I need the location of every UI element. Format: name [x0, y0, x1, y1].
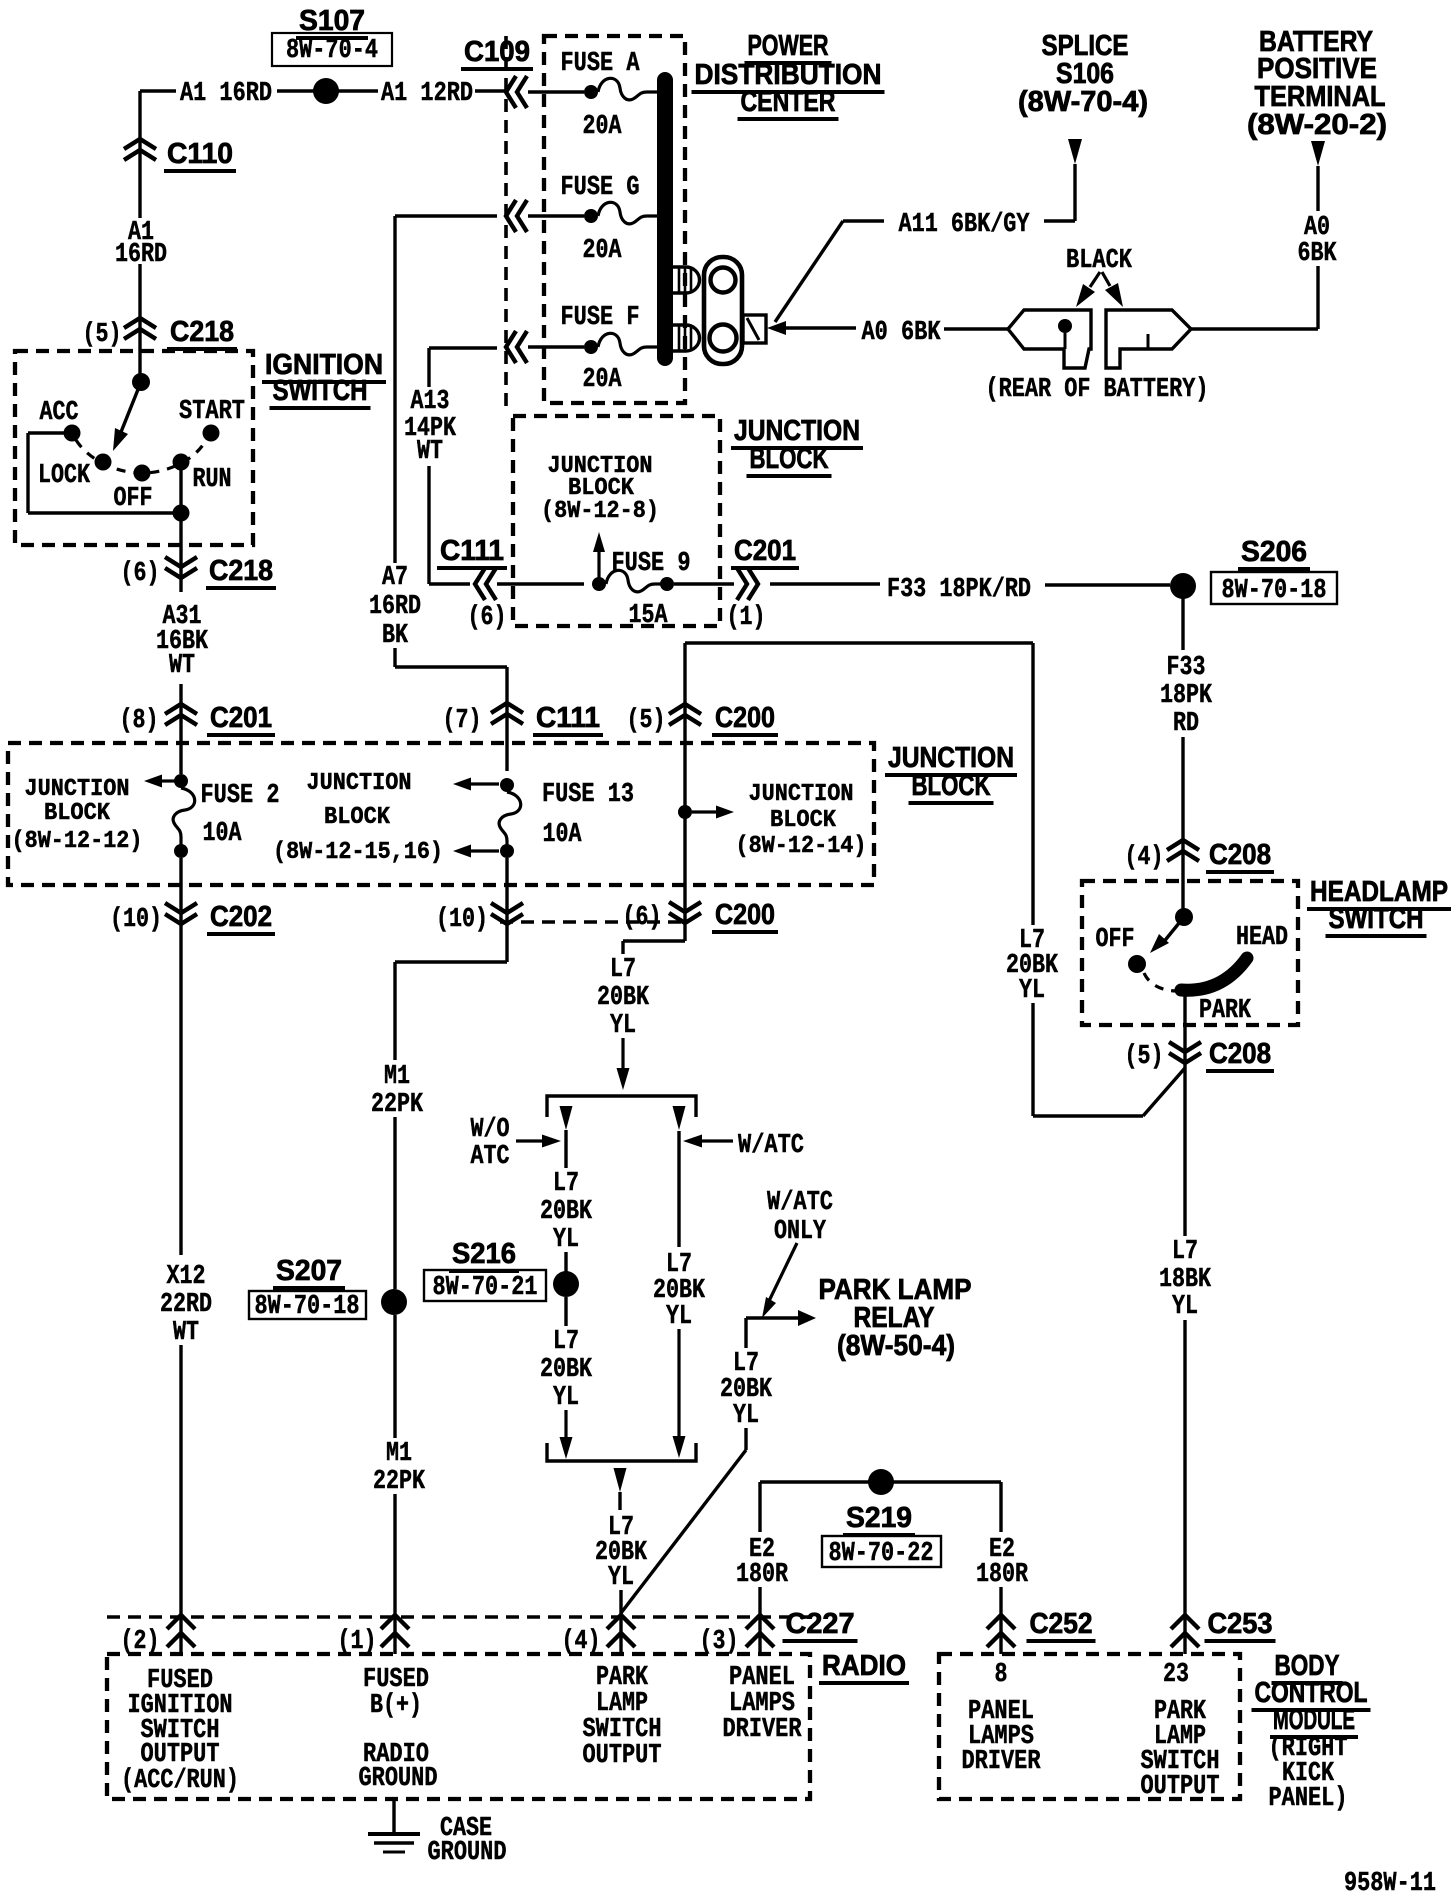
svg-text:B(+): B(+)	[370, 1691, 422, 1721]
svg-text:(6): (6)	[468, 603, 507, 633]
svg-text:YL: YL	[1019, 976, 1045, 1006]
svg-text:18PK: 18PK	[1160, 681, 1213, 711]
svg-text:L7: L7	[553, 1327, 579, 1357]
svg-text:SWITCH: SWITCH	[1329, 903, 1424, 935]
svg-text:W/ATC: W/ATC	[767, 1188, 833, 1218]
svg-text:OUTPUT: OUTPUT	[1141, 1772, 1220, 1802]
svg-text:M1: M1	[384, 1062, 410, 1092]
svg-text:FUSE 9: FUSE 9	[612, 549, 691, 579]
svg-text:C227: C227	[786, 1608, 855, 1640]
svg-text:20A: 20A	[583, 236, 623, 266]
svg-text:8: 8	[995, 1660, 1008, 1690]
svg-text:BLOCK: BLOCK	[44, 800, 110, 827]
svg-text:(10): (10)	[110, 905, 162, 935]
svg-text:20BK: 20BK	[597, 983, 650, 1013]
svg-text:GROUND: GROUND	[428, 1838, 507, 1868]
svg-text:C111: C111	[440, 535, 504, 567]
svg-text:S207: S207	[276, 1255, 342, 1287]
svg-text:23: 23	[1163, 1660, 1189, 1690]
svg-text:YL: YL	[608, 1563, 634, 1593]
svg-text:BLACK: BLACK	[1066, 246, 1133, 276]
svg-text:(10): (10)	[436, 905, 488, 935]
svg-text:A1 16RD: A1 16RD	[180, 79, 272, 109]
svg-text:C201: C201	[734, 535, 796, 567]
svg-text:C111: C111	[536, 702, 600, 734]
svg-text:ACC: ACC	[40, 398, 79, 428]
svg-text:DRIVER: DRIVER	[723, 1715, 803, 1745]
svg-text:(6): (6)	[121, 559, 160, 589]
svg-text:RD: RD	[1173, 709, 1199, 739]
svg-text:16RD: 16RD	[369, 592, 421, 622]
svg-text:(1): (1)	[727, 603, 766, 633]
svg-text:180R: 180R	[736, 1560, 789, 1590]
svg-text:C218: C218	[170, 316, 234, 348]
svg-text:M1: M1	[386, 1439, 412, 1469]
svg-text:C208: C208	[1209, 1038, 1271, 1070]
svg-text:ONLY: ONLY	[774, 1217, 827, 1247]
svg-text:(8W-12-8): (8W-12-8)	[541, 498, 659, 525]
svg-text:RADIO: RADIO	[822, 1650, 906, 1682]
svg-text:JUNCTION: JUNCTION	[749, 781, 854, 808]
svg-text:10A: 10A	[543, 820, 583, 850]
svg-text:20A: 20A	[583, 112, 623, 142]
svg-text:A1 12RD: A1 12RD	[381, 79, 473, 109]
svg-text:L7: L7	[553, 1169, 579, 1199]
svg-text:WT: WT	[417, 437, 443, 467]
svg-text:HEAD: HEAD	[1236, 923, 1288, 953]
svg-text:C208: C208	[1209, 839, 1271, 871]
svg-text:SWITCH: SWITCH	[273, 375, 368, 407]
svg-text:8W-70-4: 8W-70-4	[286, 36, 378, 66]
svg-text:F33: F33	[1167, 653, 1206, 683]
svg-text:8W-70-21: 8W-70-21	[433, 1273, 538, 1303]
svg-text:X12: X12	[167, 1262, 206, 1292]
svg-text:10A: 10A	[203, 819, 243, 849]
svg-text:C109: C109	[464, 36, 530, 68]
svg-text:W/O: W/O	[471, 1115, 510, 1145]
svg-text:6BK: 6BK	[1298, 239, 1338, 269]
svg-text:18BK: 18BK	[1159, 1265, 1212, 1295]
svg-text:(8W-70-4): (8W-70-4)	[1018, 86, 1148, 118]
svg-text:YL: YL	[666, 1302, 692, 1332]
svg-text:C200: C200	[715, 702, 775, 734]
svg-text:BLOCK: BLOCK	[912, 770, 991, 802]
svg-text:(6): (6)	[623, 903, 662, 933]
svg-text:(1): (1)	[338, 1627, 377, 1657]
svg-text:16RD: 16RD	[115, 240, 167, 270]
svg-text:C202: C202	[210, 901, 272, 933]
svg-text:(2): (2)	[121, 1627, 160, 1657]
svg-text:A0 6BK: A0 6BK	[862, 318, 942, 348]
svg-text:(ACC/RUN): (ACC/RUN)	[121, 1766, 239, 1796]
svg-text:GROUND: GROUND	[359, 1764, 438, 1794]
svg-text:DRIVER: DRIVER	[962, 1747, 1042, 1777]
svg-text:OFF: OFF	[114, 484, 153, 514]
svg-text:YL: YL	[733, 1401, 759, 1431]
svg-text:A13: A13	[411, 387, 450, 417]
svg-text:C201: C201	[210, 702, 272, 734]
svg-text:OUTPUT: OUTPUT	[583, 1741, 662, 1771]
svg-text:CENTER: CENTER	[741, 86, 836, 118]
svg-text:YL: YL	[553, 1383, 579, 1413]
svg-text:(8W-12-15,16): (8W-12-15,16)	[273, 839, 443, 866]
svg-text:(5): (5)	[1125, 1042, 1164, 1072]
svg-text:OFF: OFF	[1096, 925, 1135, 955]
svg-text:(8): (8)	[120, 706, 159, 736]
svg-text:(4): (4)	[1125, 843, 1164, 873]
svg-text:22PK: 22PK	[373, 1467, 426, 1497]
svg-text:FUSE G: FUSE G	[561, 173, 640, 203]
svg-text:22PK: 22PK	[371, 1090, 424, 1120]
svg-text:(7): (7)	[443, 706, 482, 736]
svg-text:(4): (4)	[562, 1627, 601, 1657]
svg-text:S216: S216	[452, 1238, 516, 1270]
svg-text:RUN: RUN	[193, 465, 232, 495]
svg-text:C200: C200	[715, 899, 775, 931]
svg-text:20BK: 20BK	[540, 1355, 593, 1385]
svg-text:S206: S206	[1241, 536, 1307, 568]
svg-text:PANEL): PANEL)	[1269, 1784, 1348, 1814]
svg-text:8W-70-18: 8W-70-18	[255, 1292, 360, 1322]
svg-text:W/ATC: W/ATC	[738, 1131, 804, 1161]
svg-text:WT: WT	[173, 1318, 199, 1348]
svg-text:C253: C253	[1208, 1608, 1273, 1640]
svg-text:C218: C218	[209, 555, 273, 587]
svg-text:MODULE: MODULE	[1273, 1704, 1355, 1736]
svg-text:BLOCK: BLOCK	[324, 804, 390, 831]
svg-text:A7: A7	[382, 563, 408, 593]
svg-text:L7: L7	[1172, 1237, 1198, 1267]
svg-text:POWER: POWER	[748, 30, 829, 62]
svg-text:YL: YL	[1172, 1292, 1198, 1322]
svg-text:(5): (5)	[83, 320, 122, 350]
svg-text:F33 18PK/RD: F33 18PK/RD	[887, 575, 1031, 605]
svg-text:WT: WT	[169, 651, 195, 681]
svg-text:22RD: 22RD	[160, 1290, 212, 1320]
svg-text:S219: S219	[846, 1502, 912, 1534]
svg-text:BLOCK: BLOCK	[750, 443, 829, 475]
svg-text:JUNCTION: JUNCTION	[25, 776, 130, 803]
svg-text:8W-70-18: 8W-70-18	[1222, 576, 1327, 606]
svg-text:YL: YL	[553, 1225, 579, 1255]
svg-text:START: START	[179, 397, 245, 427]
svg-text:(REAR OF BATTERY): (REAR OF BATTERY)	[986, 375, 1209, 405]
svg-text:8W-70-22: 8W-70-22	[829, 1539, 934, 1569]
svg-text:PARK: PARK	[1199, 996, 1252, 1026]
svg-text:YL: YL	[610, 1011, 636, 1041]
svg-text:15A: 15A	[629, 601, 669, 631]
svg-text:180R: 180R	[976, 1560, 1029, 1590]
svg-text:BK: BK	[382, 621, 409, 651]
svg-text:L7: L7	[610, 955, 636, 985]
svg-text:(3): (3)	[700, 1627, 739, 1657]
svg-text:958W-11: 958W-11	[1344, 1869, 1436, 1896]
svg-text:20BK: 20BK	[540, 1197, 593, 1227]
svg-text:FUSE F: FUSE F	[561, 303, 640, 333]
svg-text:BLOCK: BLOCK	[770, 807, 836, 834]
svg-text:20A: 20A	[583, 365, 623, 395]
svg-text:(8W-50-4): (8W-50-4)	[837, 1330, 955, 1362]
svg-text:C252: C252	[1030, 1608, 1093, 1640]
svg-text:(8W-20-2): (8W-20-2)	[1247, 109, 1387, 141]
svg-text:(5): (5)	[627, 706, 666, 736]
svg-text:FUSE 13: FUSE 13	[542, 780, 634, 810]
svg-text:(8W-12-14): (8W-12-14)	[736, 833, 867, 860]
svg-text:A11 6BK/GY: A11 6BK/GY	[899, 210, 1031, 240]
svg-text:(8W-12-12): (8W-12-12)	[12, 828, 143, 855]
svg-text:FUSE 2: FUSE 2	[201, 781, 280, 811]
svg-text:JUNCTION: JUNCTION	[307, 770, 412, 797]
svg-text:C110: C110	[167, 138, 233, 170]
svg-text:FUSE A: FUSE A	[561, 49, 641, 79]
svg-text:LOCK: LOCK	[38, 461, 91, 491]
svg-text:ATC: ATC	[471, 1142, 510, 1172]
